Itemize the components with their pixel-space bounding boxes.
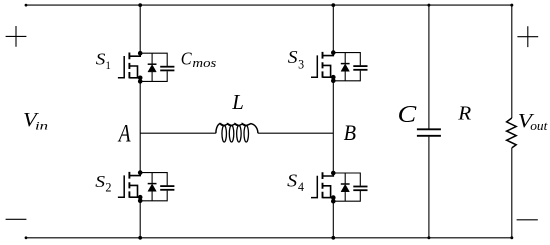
svg-text:S: S	[288, 48, 298, 68]
node: input - terminal dot	[25, 236, 28, 239]
label S1	[96, 49, 111, 72]
svg-text:B: B	[344, 120, 356, 145]
wire: left leg bottom (S2 source to rail)	[139, 201, 141, 238]
wire: top rail (Vin+ to bridge top)	[26, 4, 512, 6]
parallel capacitor of S4	[333, 173, 367, 201]
label R	[457, 103, 472, 124]
wire: C branch bottom	[428, 137, 430, 238]
label node A	[117, 119, 131, 147]
wire: right leg top (rail to S3 drain)	[332, 5, 334, 53]
label S2	[95, 172, 111, 195]
svg-text:mos: mos	[192, 56, 216, 70]
wire: left leg top (rail to S1 drain)	[139, 5, 141, 53]
junction dot top rail / C branch	[427, 4, 430, 7]
svg-text:4: 4	[298, 180, 304, 194]
wire: node A to inductor	[140, 132, 216, 134]
wire: right leg middle (S3 source to node B to S4 drain)	[332, 81, 334, 173]
body diode of S1	[148, 53, 157, 81]
label node B	[344, 120, 356, 145]
svg-text:2: 2	[105, 181, 111, 195]
svg-text:C: C	[398, 101, 417, 128]
svg-text:3: 3	[298, 57, 304, 72]
transistor S1 (N-MOSFET)	[118, 51, 143, 84]
label Cmos	[181, 49, 217, 70]
label S4	[287, 172, 304, 194]
transistor S3 (N-MOSFET)	[311, 50, 336, 83]
svg-text:in: in	[35, 120, 48, 133]
svg-text:S: S	[95, 172, 105, 191]
svg-text:C: C	[181, 49, 193, 69]
wire: left leg middle (S1 source to node A to S2 drain)	[139, 81, 141, 172]
svg-text:1: 1	[106, 59, 111, 72]
label Vin	[23, 108, 48, 133]
junction dot top rail / right leg	[331, 3, 335, 7]
wire: C branch top	[428, 5, 430, 128]
svg-text:S: S	[287, 172, 298, 192]
wire: R branch top	[511, 5, 513, 118]
junction dot bottom rail / C branch	[427, 236, 430, 239]
resistor R (load) zigzag	[507, 118, 517, 148]
capacitor C (output filter)	[417, 129, 441, 136]
wire: R branch bottom	[511, 148, 513, 238]
input polarity +	[6, 26, 27, 47]
wire: inductor to node B	[258, 132, 333, 134]
junction dot top rail / R branch	[510, 4, 513, 7]
transistor S2 (N-MOSFET)	[118, 170, 143, 203]
label Vout	[518, 109, 548, 133]
junction dot bottom rail / R branch	[510, 236, 513, 239]
parallel capacitor of S2	[140, 173, 174, 201]
node: input + terminal dot	[25, 4, 28, 7]
svg-text:S: S	[96, 49, 106, 68]
svg-text:A: A	[117, 119, 131, 147]
junction dot bottom rail / left leg	[138, 236, 142, 240]
label S3	[288, 48, 304, 71]
transistor S4 (N-MOSFET)	[311, 171, 336, 204]
wire: bottom rail (Vin- to bridge bottom)	[26, 237, 512, 239]
junction dot bottom rail / right leg	[331, 236, 335, 240]
output polarity -	[517, 219, 538, 221]
output polarity +	[517, 26, 538, 47]
inductor L coil	[216, 124, 258, 142]
wire: right leg bottom (S4 source to rail)	[332, 201, 334, 238]
svg-text:R: R	[457, 103, 472, 124]
svg-text:out: out	[530, 118, 547, 133]
body diode of S4	[341, 173, 350, 201]
parallel capacitor of S1	[140, 53, 174, 81]
label C	[398, 101, 417, 128]
svg-text:L: L	[231, 90, 244, 114]
body diode of S2	[148, 173, 157, 201]
body diode of S3	[341, 53, 350, 81]
parallel capacitor of S3	[333, 53, 367, 81]
input polarity -	[6, 218, 27, 220]
label L	[231, 90, 244, 114]
junction dot top rail / left leg	[138, 3, 142, 7]
